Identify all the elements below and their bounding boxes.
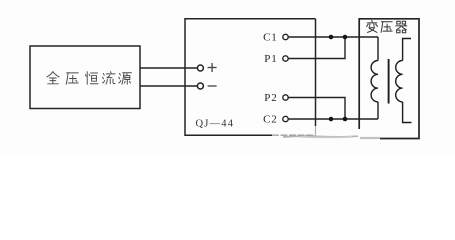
char 恒 — [85, 72, 98, 85]
junction dot C1-a — [329, 35, 334, 40]
terminal P2 circle — [283, 95, 288, 100]
junction dot C1-P1 — [343, 35, 348, 40]
svg-text:P2: P2 — [264, 92, 277, 104]
char 流 — [102, 72, 115, 85]
secondary winding L2 — [396, 39, 412, 123]
transformer box — [359, 19, 419, 139]
terminal C2 circle — [283, 116, 288, 121]
wire C1 to transformer — [288, 36, 378, 38]
wire - from source to bridge — [140, 85, 197, 87]
terminal C1 circle — [283, 34, 288, 39]
terminal + circle — [197, 65, 203, 71]
wire + from source to bridge — [140, 67, 197, 69]
svg-text:QJ—44: QJ—44 — [196, 119, 235, 130]
char 器 — [396, 21, 407, 33]
wire P1 — [288, 37, 345, 59]
core — [388, 59, 390, 104]
QJ-44 bridge box — [185, 19, 316, 135]
terminal - circle — [197, 83, 203, 89]
char 源 — [119, 73, 132, 85]
char 压 (transformer) — [381, 22, 392, 33]
svg-text:C2: C2 — [263, 114, 277, 126]
junction dot C2-a — [329, 117, 334, 122]
label 全压恒流源 — [47, 72, 132, 85]
junction dot C2-P2 — [343, 117, 348, 122]
char 压 — [66, 73, 78, 84]
wire C2 to transformer — [288, 118, 378, 120]
minus sign — [208, 85, 217, 87]
label 变压器 — [367, 20, 407, 32]
constant current source box — [30, 46, 140, 109]
svg-text:P1: P1 — [264, 53, 277, 65]
char 变 — [367, 20, 378, 32]
svg-text:C1: C1 — [263, 32, 277, 44]
char 全 — [47, 72, 59, 84]
plus sign — [208, 63, 217, 72]
primary winding L1 — [371, 37, 378, 119]
terminal P1 circle — [283, 56, 288, 61]
scan smudge bottom — [283, 136, 380, 137]
wire P2 — [288, 98, 345, 120]
